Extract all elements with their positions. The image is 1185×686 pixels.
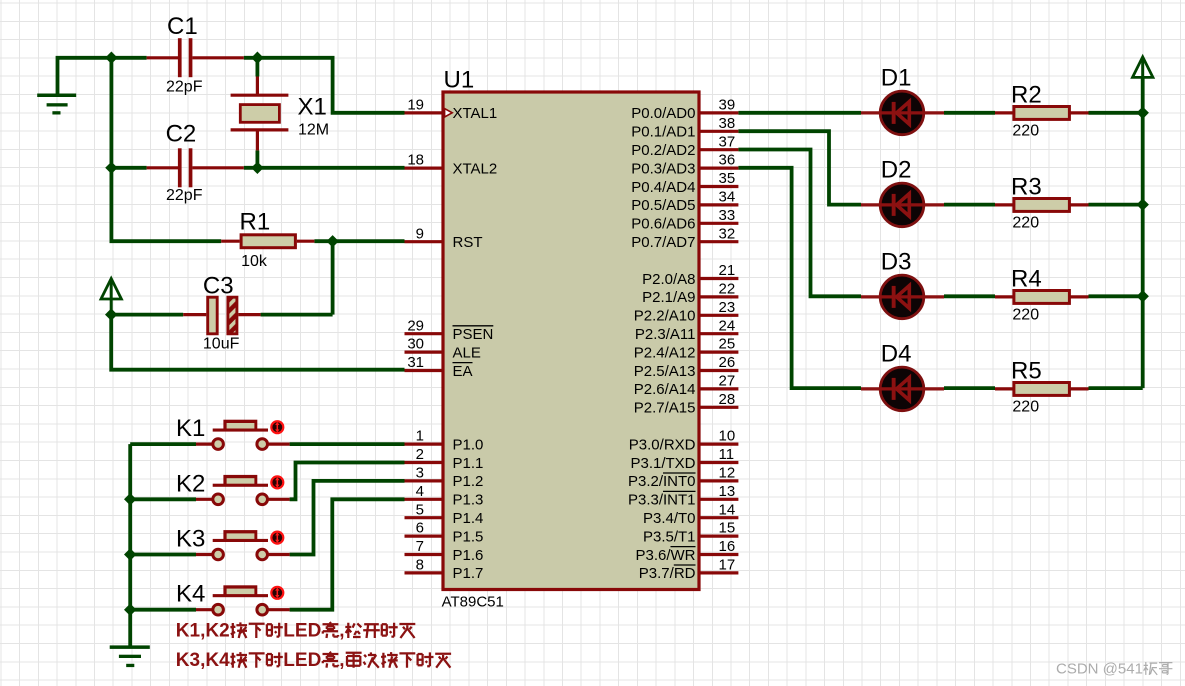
LED D3 bbox=[880, 275, 924, 319]
svg-text:K2: K2 bbox=[176, 470, 205, 497]
node bus/K2 bbox=[124, 493, 136, 505]
pin 38 (P0.1/AD1) bbox=[701, 130, 739, 133]
pin 32 (P0.7/AD7) bbox=[701, 240, 739, 243]
wire C3 left bbox=[111, 313, 183, 317]
pin 1 (P1.0) bbox=[405, 443, 442, 446]
pin 36 (P0.3/AD3) bbox=[701, 167, 739, 170]
svg-text:R5: R5 bbox=[1011, 358, 1042, 385]
svg-text:3: 3 bbox=[416, 465, 424, 482]
wire R5 to VCC rail bbox=[1089, 386, 1143, 390]
capacitor C3 bbox=[183, 313, 206, 316]
wire P0.1 to D2 bbox=[738, 131, 861, 204]
svg-text:18: 18 bbox=[407, 152, 424, 169]
push button K4 bbox=[196, 608, 213, 611]
push button K1 bbox=[196, 443, 213, 446]
svg-text:K3,K4: K3,K4 bbox=[176, 650, 230, 671]
svg-text:21: 21 bbox=[719, 262, 736, 279]
wire R4 to VCC rail bbox=[1089, 294, 1143, 298]
svg-text:CSDN @541: CSDN @541 bbox=[1056, 661, 1143, 678]
svg-text:RST: RST bbox=[453, 234, 483, 251]
wire left bus C1-C2-R1 bbox=[111, 58, 221, 241]
wire K1 to P1.0 pin bbox=[290, 442, 405, 446]
svg-text:8: 8 bbox=[416, 557, 424, 574]
pin 18 (XTAL2) bbox=[405, 167, 442, 170]
node R2/VCC rail bbox=[1137, 107, 1149, 119]
svg-text:14: 14 bbox=[719, 501, 736, 518]
svg-text:13: 13 bbox=[719, 483, 736, 500]
svg-text:XTAL2: XTAL2 bbox=[453, 160, 498, 177]
svg-text:15: 15 bbox=[719, 520, 736, 537]
wire P0.2 to D3 bbox=[738, 150, 861, 297]
svg-text:P0.4/AD4: P0.4/AD4 bbox=[631, 179, 695, 196]
wire R3 to VCC rail bbox=[1089, 203, 1143, 207]
svg-text:220: 220 bbox=[1012, 214, 1039, 231]
svg-text:P2.4/A12: P2.4/A12 bbox=[634, 344, 696, 361]
svg-text:11: 11 bbox=[719, 446, 735, 463]
svg-text:LED: LED bbox=[283, 650, 321, 671]
pin 25 (P2.4/A12) bbox=[701, 351, 739, 354]
pin 12 (P3.2/INT0) bbox=[701, 479, 739, 482]
pin 28 (P2.7/A15) bbox=[701, 406, 739, 409]
wire D1 to R2 bbox=[944, 111, 995, 115]
svg-text:P3.1/TXD: P3.1/TXD bbox=[630, 455, 695, 472]
wire VCC rail right bbox=[1141, 59, 1145, 388]
wire D4 to R5 bbox=[944, 386, 995, 390]
svg-text:25: 25 bbox=[719, 336, 736, 353]
svg-text:220: 220 bbox=[1012, 398, 1039, 415]
svg-text:K1: K1 bbox=[176, 415, 205, 442]
pin 26 (P2.5/A13) bbox=[701, 369, 739, 372]
svg-text:35: 35 bbox=[719, 170, 736, 187]
svg-text:U1: U1 bbox=[444, 67, 475, 94]
svg-text:10: 10 bbox=[719, 428, 736, 445]
pin 39 (P0.0/AD0) bbox=[701, 111, 739, 114]
svg-text:19: 19 bbox=[407, 97, 424, 114]
svg-text:22pF: 22pF bbox=[166, 79, 203, 96]
push button K2 bbox=[196, 498, 213, 501]
pin 4 (P1.3) bbox=[405, 498, 442, 501]
svg-text:X1: X1 bbox=[298, 93, 327, 120]
wire R1 node down to C3 bbox=[331, 241, 335, 314]
pin 5 (P1.4) bbox=[405, 516, 442, 519]
wire D2 to R3 bbox=[944, 203, 995, 207]
svg-text:34: 34 bbox=[719, 189, 736, 206]
svg-text:P0.6/AD6: P0.6/AD6 bbox=[631, 216, 695, 233]
pin 37 (P0.2/AD2) bbox=[701, 148, 739, 151]
pin 2 (P1.1) bbox=[405, 461, 442, 464]
svg-text:D2: D2 bbox=[881, 156, 912, 183]
svg-text:K3: K3 bbox=[176, 526, 205, 553]
svg-text:R2: R2 bbox=[1011, 82, 1042, 109]
svg-text:4: 4 bbox=[416, 483, 424, 500]
svg-text:23: 23 bbox=[719, 299, 736, 316]
crystal X1 bbox=[256, 77, 259, 96]
pin 6 (P1.5) bbox=[405, 534, 442, 537]
svg-text:38: 38 bbox=[719, 115, 736, 132]
pin 19 (XTAL1) bbox=[405, 111, 442, 114]
pin 15 (P3.5/T1) bbox=[701, 534, 739, 537]
svg-text:6: 6 bbox=[416, 520, 424, 537]
svg-text:C2: C2 bbox=[166, 120, 197, 147]
wire X1 top stub bbox=[255, 58, 259, 77]
IC U1 AT89C51 body bbox=[443, 92, 699, 590]
wire C2 right to XTAL2 pin bbox=[244, 166, 405, 170]
pin 3 (P1.2) bbox=[405, 479, 442, 482]
svg-text:33: 33 bbox=[719, 207, 736, 224]
pin 17 (P3.7/RD) bbox=[701, 571, 739, 574]
pin 21 (P2.0/A8) bbox=[701, 277, 739, 280]
svg-text:K1,K2: K1,K2 bbox=[176, 620, 230, 641]
wire K2 left bbox=[130, 497, 196, 501]
wire P0.3 to D4 bbox=[738, 168, 861, 388]
pin 30 (ALE) bbox=[405, 351, 442, 354]
pin 14 (P3.4/T0) bbox=[701, 516, 739, 519]
svg-text:D3: D3 bbox=[881, 248, 912, 275]
svg-text:ALE: ALE bbox=[453, 344, 481, 361]
svg-text:5: 5 bbox=[416, 501, 424, 518]
wire C1 right to XTAL1 pin bbox=[244, 58, 405, 113]
svg-text:P1.1: P1.1 bbox=[453, 455, 484, 472]
pin 10 (P3.0/RXD) bbox=[701, 443, 739, 446]
svg-text:P3.2/INT0: P3.2/INT0 bbox=[628, 473, 696, 490]
LED D4 bbox=[880, 367, 924, 411]
node R3/VCC rail bbox=[1137, 198, 1149, 210]
svg-text:12M: 12M bbox=[298, 121, 329, 138]
svg-text:12: 12 bbox=[719, 465, 736, 482]
svg-text:R1: R1 bbox=[240, 208, 271, 235]
svg-text:P3.5/T1: P3.5/T1 bbox=[643, 528, 696, 545]
pin 23 (P2.2/A10) bbox=[701, 314, 739, 317]
pin 13 (P3.3/INT1) bbox=[701, 498, 739, 501]
svg-text:LED: LED bbox=[283, 620, 321, 641]
wire C3 node to EA pin bbox=[111, 315, 404, 370]
svg-text:P0.0/AD0: P0.0/AD0 bbox=[631, 105, 695, 122]
wire K4 to P1.3 pin bbox=[290, 499, 405, 609]
svg-text:P1.4: P1.4 bbox=[453, 510, 484, 527]
pin 22 (P2.1/A9) bbox=[701, 295, 739, 298]
node R4/VCC rail bbox=[1137, 290, 1149, 302]
svg-text:D4: D4 bbox=[881, 340, 912, 367]
svg-text:9: 9 bbox=[416, 225, 424, 242]
node bus/K4 bbox=[124, 604, 136, 616]
pin 35 (P0.4/AD4) bbox=[701, 185, 739, 188]
svg-text:30: 30 bbox=[407, 336, 424, 353]
svg-text:R3: R3 bbox=[1011, 174, 1042, 201]
svg-text:P0.2/AD2: P0.2/AD2 bbox=[631, 142, 695, 159]
wire C3 right bbox=[261, 313, 333, 317]
pin 29 (PSEN) bbox=[405, 332, 442, 335]
svg-text:,: , bbox=[339, 620, 344, 641]
svg-text:36: 36 bbox=[719, 152, 736, 169]
svg-text:P1.3: P1.3 bbox=[453, 492, 484, 509]
svg-text:P3.3/INT1: P3.3/INT1 bbox=[628, 492, 696, 509]
power symbol VCC (near C3) bbox=[101, 279, 121, 300]
svg-text:P0.5/AD5: P0.5/AD5 bbox=[631, 197, 695, 214]
svg-text:16: 16 bbox=[719, 538, 736, 555]
power symbol VCC (right rail) bbox=[1133, 57, 1153, 78]
svg-text:28: 28 bbox=[719, 391, 736, 408]
svg-text:P1.2: P1.2 bbox=[453, 473, 484, 490]
resistor R2 bbox=[995, 111, 1014, 114]
svg-text:P1.0: P1.0 bbox=[453, 436, 484, 453]
svg-text:27: 27 bbox=[719, 373, 736, 390]
XTAL1 input arrow bbox=[445, 109, 453, 117]
ground key bus bottom bbox=[110, 645, 150, 649]
node bus/K3 bbox=[124, 548, 136, 560]
wire K3 to P1.2 pin bbox=[290, 481, 405, 555]
svg-text:P2.0/A8: P2.0/A8 bbox=[642, 271, 695, 288]
resistor R4 bbox=[995, 295, 1014, 298]
wire K4 left bbox=[130, 608, 196, 612]
svg-text:P1.6: P1.6 bbox=[453, 547, 484, 564]
svg-text:EA: EA bbox=[453, 363, 473, 380]
node C1/X1 top bbox=[251, 52, 263, 65]
resistor R5 bbox=[995, 387, 1014, 390]
pin 16 (P3.6/WR) bbox=[701, 553, 739, 556]
svg-text:K4: K4 bbox=[176, 581, 205, 608]
wire K1 left bbox=[130, 442, 196, 446]
LED D2 bbox=[880, 183, 924, 227]
wire P0.0 to D1 bbox=[738, 111, 861, 115]
svg-text:P1.5: P1.5 bbox=[453, 528, 484, 545]
svg-text:P1.7: P1.7 bbox=[453, 565, 484, 582]
wire K3 left bbox=[130, 553, 196, 557]
svg-text:10uF: 10uF bbox=[203, 336, 240, 353]
svg-text:R4: R4 bbox=[1011, 266, 1042, 293]
svg-text:P3.4/T0: P3.4/T0 bbox=[643, 510, 696, 527]
pin 9 (RST) bbox=[405, 240, 442, 243]
svg-text:P2.1/A9: P2.1/A9 bbox=[642, 289, 695, 306]
svg-text:XTAL1: XTAL1 bbox=[453, 105, 498, 122]
svg-text:P0.7/AD7: P0.7/AD7 bbox=[631, 234, 695, 251]
capacitor C1 bbox=[147, 56, 178, 59]
svg-text:P0.1/AD1: P0.1/AD1 bbox=[631, 124, 695, 141]
node bus/C2 bbox=[105, 162, 117, 174]
node GND/C1 bbox=[105, 52, 117, 65]
svg-text:10k: 10k bbox=[241, 253, 268, 270]
pin 24 (P2.3/A11) bbox=[701, 332, 739, 335]
svg-text:AT89C51: AT89C51 bbox=[442, 594, 504, 611]
svg-text:C1: C1 bbox=[167, 13, 198, 40]
svg-text:P3.6/WR: P3.6/WR bbox=[635, 547, 695, 564]
svg-text:P2.7/A15: P2.7/A15 bbox=[634, 400, 696, 417]
svg-text:P2.5/A13: P2.5/A13 bbox=[634, 363, 696, 380]
wire GND top rail bbox=[58, 58, 147, 95]
svg-text:26: 26 bbox=[719, 354, 736, 371]
node R1/RST bbox=[326, 235, 338, 247]
svg-text:P3.7/RD: P3.7/RD bbox=[639, 565, 696, 582]
wire VCC arrow stem left bbox=[110, 280, 113, 315]
pin 7 (P1.6) bbox=[405, 553, 442, 556]
pin 8 (P1.7) bbox=[405, 571, 442, 574]
svg-text:P2.2/A10: P2.2/A10 bbox=[634, 308, 696, 325]
node C2/X1 bottom bbox=[251, 162, 263, 174]
svg-text:39: 39 bbox=[719, 97, 736, 114]
svg-text:220: 220 bbox=[1012, 306, 1039, 323]
svg-text:P3.0/RXD: P3.0/RXD bbox=[629, 436, 696, 453]
svg-text:220: 220 bbox=[1012, 122, 1039, 139]
wire R1 right to RST pin bbox=[314, 239, 404, 243]
node VCC/C3 bbox=[105, 308, 117, 320]
resistor R3 bbox=[995, 203, 1014, 206]
svg-text:PSEN: PSEN bbox=[453, 326, 494, 343]
svg-text:P0.3/AD3: P0.3/AD3 bbox=[631, 160, 695, 177]
wire R2 to VCC rail bbox=[1089, 111, 1143, 115]
wire K2 to P1.1 pin bbox=[290, 463, 405, 500]
svg-text:29: 29 bbox=[407, 317, 424, 334]
svg-text:P2.3/A11: P2.3/A11 bbox=[635, 326, 696, 343]
LED D1 bbox=[880, 91, 924, 135]
wire D3 to R4 bbox=[944, 294, 995, 298]
pin 31 (EA) bbox=[405, 369, 442, 372]
wire X1 bottom stub bbox=[255, 150, 259, 167]
svg-text:24: 24 bbox=[719, 317, 736, 334]
svg-text:22pF: 22pF bbox=[166, 187, 203, 204]
svg-text:31: 31 bbox=[407, 354, 424, 371]
svg-text:,: , bbox=[339, 650, 344, 671]
svg-text:D1: D1 bbox=[881, 64, 912, 91]
wire C2 row left bbox=[111, 166, 146, 170]
svg-text:17: 17 bbox=[719, 557, 736, 574]
capacitor C2 bbox=[147, 166, 178, 169]
svg-text:C3: C3 bbox=[203, 273, 234, 300]
pin 27 (P2.6/A14) bbox=[701, 387, 739, 390]
svg-text:22: 22 bbox=[719, 281, 736, 298]
pin 11 (P3.1/TXD) bbox=[701, 461, 739, 464]
svg-text:P2.6/A14: P2.6/A14 bbox=[634, 381, 696, 398]
svg-text:1: 1 bbox=[416, 428, 424, 445]
resistor R1 bbox=[221, 240, 239, 243]
ground top-left bbox=[37, 94, 76, 98]
wire key bus vertical bbox=[128, 444, 132, 645]
svg-text:7: 7 bbox=[416, 538, 424, 555]
svg-text:37: 37 bbox=[719, 133, 736, 150]
svg-text:2: 2 bbox=[416, 446, 424, 463]
svg-text:32: 32 bbox=[719, 225, 736, 242]
push button K3 bbox=[196, 553, 213, 556]
pin 33 (P0.6/AD6) bbox=[701, 222, 739, 225]
pin 34 (P0.5/AD5) bbox=[701, 203, 739, 206]
